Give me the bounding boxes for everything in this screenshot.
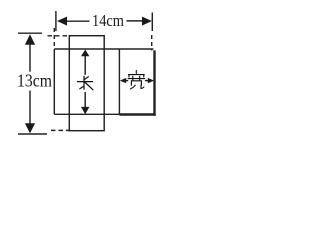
dimension 14cm top: left arrow line	[64, 20, 90, 22]
dimension 13cm left: upper arrow line	[29, 42, 31, 72]
length arrow: upper stem	[84, 54, 86, 75]
dashed bounding box: bottom-left horizontal dash segment	[51, 129, 69, 131]
width arrow: right stem	[145, 80, 149, 82]
net: middle band top edge	[54, 48, 153, 50]
net: middle band right edge (thick)	[153, 50, 155, 115]
dimension 14cm top: right tick	[151, 13, 153, 32]
dimension 13cm left: down arrowhead	[25, 123, 35, 133]
dashed bounding box: top-left horizontal dash segment	[48, 35, 70, 37]
svg-text:14cm: 14cm	[92, 11, 124, 30]
net: tall rectangle (length column)	[69, 36, 104, 131]
dimension 13cm left: top tick	[18, 32, 42, 34]
net: middle band bottom edge (thin left part)	[54, 113, 119, 115]
dimension 13cm left: bottom tick	[18, 133, 47, 135]
label CHANG (length) hand-drawn hanzi	[78, 76, 94, 90]
dimension 13cm left: lower arrow line	[29, 91, 31, 127]
length arrow: lower stem	[84, 92, 86, 109]
net: inner vertical divider	[118, 49, 120, 114]
net: middle band bottom edge (thick right part)	[119, 113, 155, 115]
dimension 14cm top: left arrowhead	[57, 17, 67, 26]
dashed bounding box: left vertical dash segment	[53, 28, 55, 49]
length arrow: down arrowhead	[81, 107, 89, 114]
dimension 14cm top: right arrow line	[127, 20, 145, 22]
length arrow: up arrowhead	[81, 50, 89, 57]
svg-text:13cm: 13cm	[17, 70, 52, 90]
dimension 13cm left: up arrowhead	[25, 34, 35, 45]
dashed bounding box: right vertical dash segment	[151, 35, 153, 51]
width arrow: left arrowhead	[120, 78, 126, 83]
label KUAN (width) hand-drawn hanzi	[128, 71, 144, 89]
dimension 14cm top: right arrowhead	[142, 17, 152, 26]
width arrow: left stem	[126, 80, 129, 82]
dimension 14cm top: left tick	[55, 11, 57, 31]
net: middle band left edge	[53, 49, 55, 114]
width arrow: right arrowhead	[148, 78, 154, 83]
